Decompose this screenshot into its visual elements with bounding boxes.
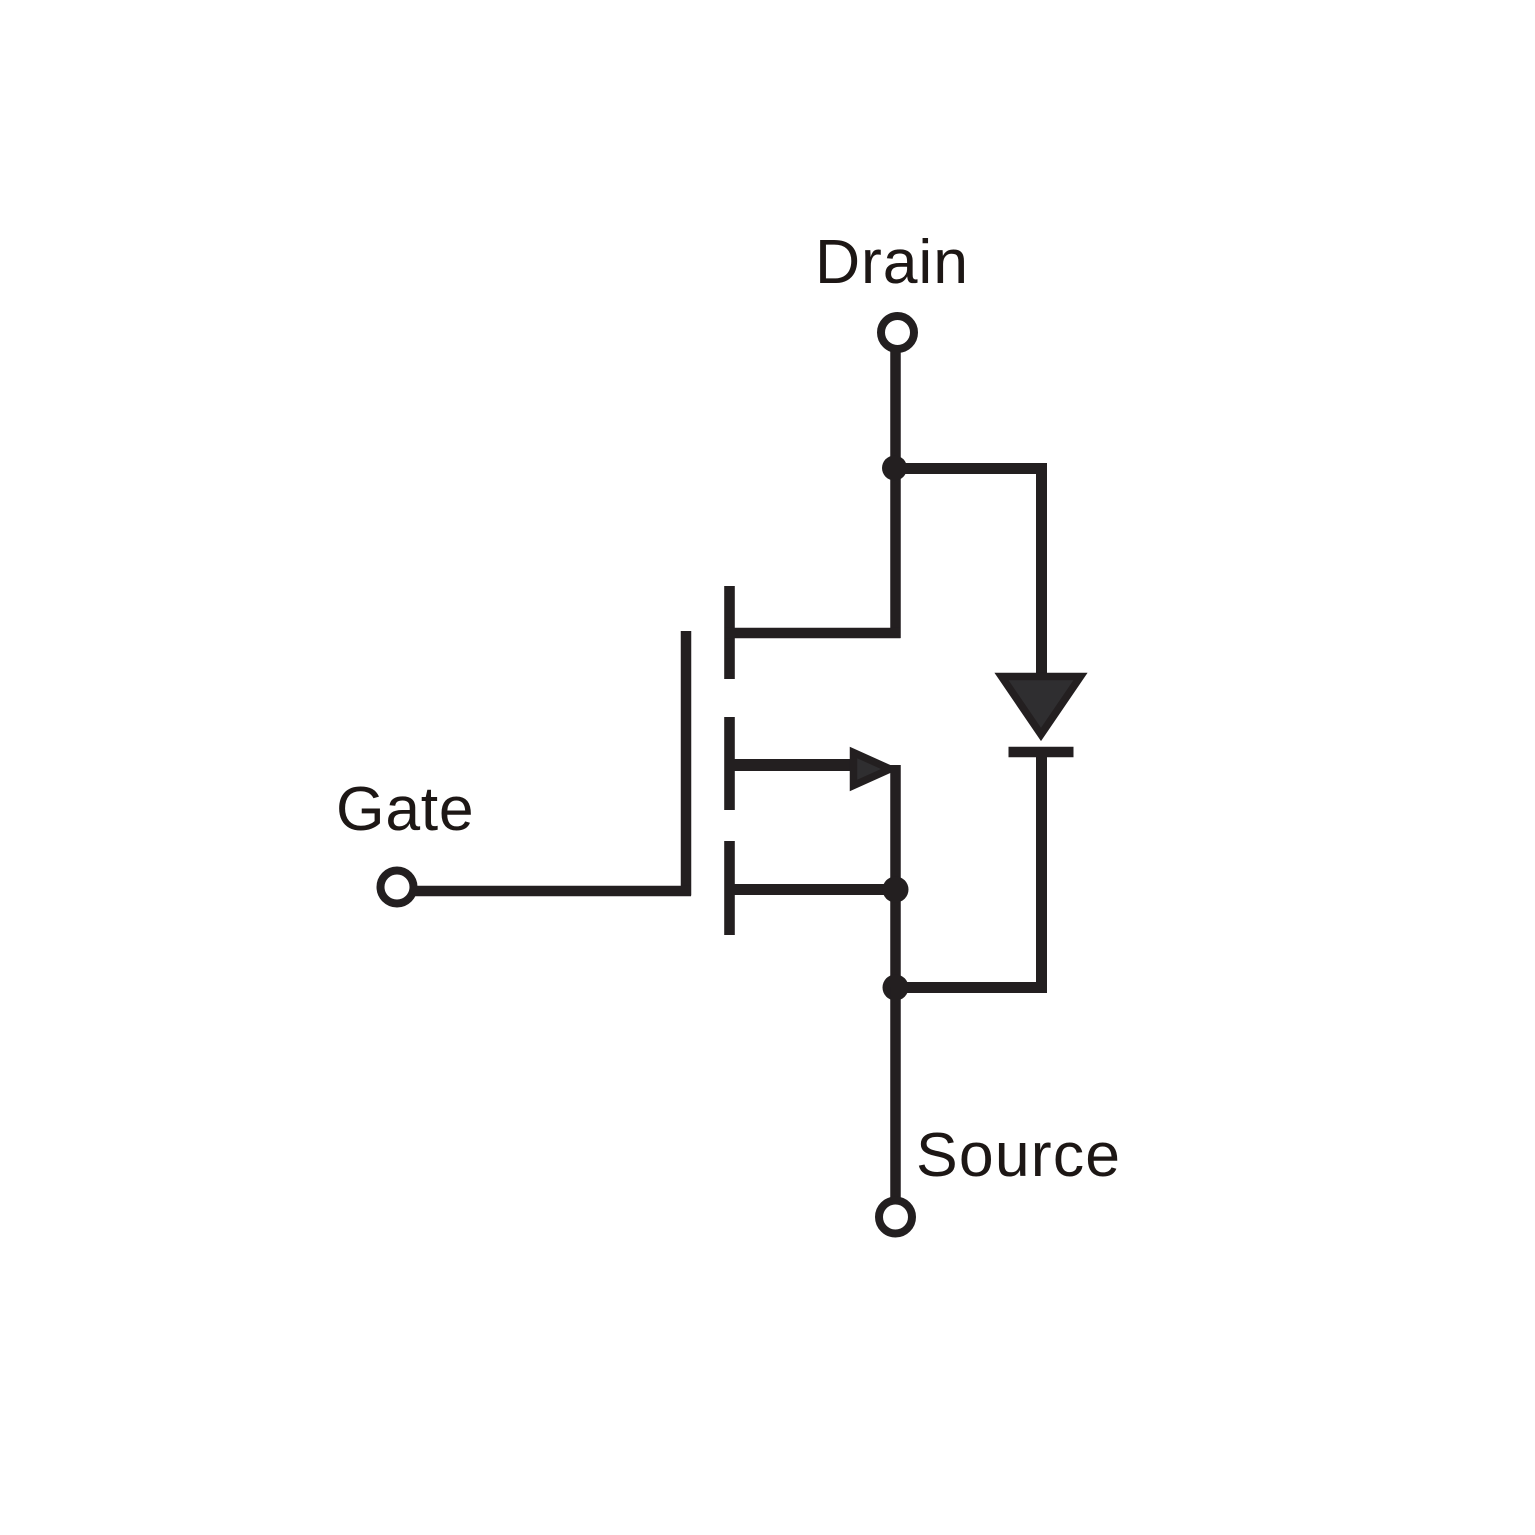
transistor Q1 body arrow shaft [730,759,866,771]
diode D1 cathode bar [1009,747,1074,758]
diode D1 anode triangle (pointing down) [1002,677,1081,735]
svg-text:Gate: Gate [336,774,474,844]
wire drain junction to diode anode [894,469,1042,679]
node source bottom junction [883,975,909,1001]
node source bar junction [883,877,909,903]
terminal Source (open circle) [879,1201,912,1234]
wire source bar (channel to source node) [725,884,896,895]
wire source junction to source terminal [890,987,901,1200]
wire gate terminal to gate electrode [415,886,691,897]
transistor Q1 body arrow head [854,753,891,786]
transistor Q1 channel segment (source side) [724,841,735,935]
transistor Q1 channel segment (middle / body) [724,717,735,810]
wire diode cathode to source junction [895,752,1042,988]
terminal Gate (open circle) [381,871,414,904]
transistor Q1 gate electrode (vertical plate) [681,631,692,896]
svg-text:Drain: Drain [815,227,969,297]
transistor Q1 channel segment (drain side) [724,586,735,679]
terminal Drain (open circle) [881,316,914,349]
node drain junction [882,456,907,481]
svg-text:Source: Source [916,1120,1121,1190]
wire body arrow tip down to source junction [890,765,901,992]
wire drain bar (channel to drain lead) [725,628,901,639]
wire drain terminal to drain junction (vertical) [890,350,901,638]
